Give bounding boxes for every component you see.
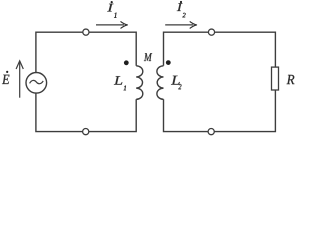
label R bbox=[287, 75, 295, 84]
polarity dot secondary bbox=[166, 60, 171, 65]
polarity dot primary bbox=[124, 60, 129, 65]
label L2 bbox=[171, 76, 180, 85]
AC source circle bbox=[26, 73, 47, 94]
label E (EMF) bbox=[2, 75, 9, 84]
AC source sine symbol bbox=[30, 80, 44, 83]
wire left loop (primary circuit outline) bbox=[36, 32, 136, 131]
subscript 1 of L1 bbox=[124, 86, 126, 91]
current arrow I2 bbox=[165, 21, 196, 28]
subscript 1 of I1 bbox=[114, 13, 116, 18]
label M (mutual inductance) bbox=[144, 53, 152, 61]
label I2 bbox=[177, 3, 183, 11]
resistor R body bbox=[272, 67, 279, 90]
terminal bottom-right bbox=[208, 129, 214, 135]
label L1 bbox=[114, 76, 122, 84]
inductor L1 winding bbox=[136, 66, 143, 100]
terminal top-left bbox=[83, 29, 89, 35]
label I1 bbox=[107, 4, 113, 12]
dot above I1 bbox=[111, 1, 113, 3]
subscript 2 of L2 bbox=[178, 84, 181, 89]
dot above I2 bbox=[180, 1, 182, 3]
subscript 2 of I2 bbox=[182, 13, 185, 17]
wire right loop (secondary circuit outline) bbox=[164, 32, 276, 131]
terminal bottom-left bbox=[83, 129, 89, 135]
current arrow I1 bbox=[96, 21, 127, 28]
EMF arrow (upward) bbox=[16, 61, 23, 98]
inductor L2 winding bbox=[157, 66, 164, 100]
terminal top-right bbox=[208, 29, 214, 35]
dot above E bbox=[6, 71, 8, 73]
